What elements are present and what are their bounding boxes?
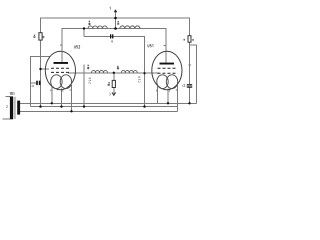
wire tube2 grid in xyxy=(145,72,160,74)
node grid2 x144 xyxy=(143,72,145,74)
capacitor C3 xyxy=(183,84,193,88)
label U52 xyxy=(74,45,80,48)
node bus2 x144 xyxy=(143,105,145,107)
arrow antenna top xyxy=(110,7,118,12)
resistor R2 xyxy=(184,36,194,43)
wire tank row xyxy=(68,72,159,74)
resistor R1 xyxy=(33,33,44,40)
grid row 1 xyxy=(51,67,69,69)
grid row 1 xyxy=(158,67,176,69)
wire R3 to arrow xyxy=(113,88,115,96)
node tank mid xyxy=(113,72,115,74)
inductor L3 xyxy=(92,70,108,72)
wire TR1 left top lead xyxy=(5,96,10,98)
pin marks tube1 xyxy=(50,44,70,91)
node rail2-C2 xyxy=(83,27,85,29)
wire bus1 xyxy=(20,102,197,104)
label U51 xyxy=(148,44,153,47)
node rail2-antenna xyxy=(114,27,117,30)
plate lead xyxy=(165,52,167,63)
wire antenna drop xyxy=(115,12,117,29)
label L2 xyxy=(117,21,119,25)
label L1 xyxy=(89,21,91,25)
envelope xyxy=(152,51,182,89)
wire R3 drop xyxy=(113,73,115,81)
tube U51 (right valve) xyxy=(148,44,182,89)
plate bar xyxy=(54,62,69,64)
node antenna-rail1 xyxy=(114,17,117,20)
wire R1 down xyxy=(40,40,42,107)
envelope xyxy=(45,51,75,89)
wire C3 down xyxy=(189,88,191,104)
capacitor C2 xyxy=(110,34,113,42)
wire left L-branch xyxy=(31,56,51,106)
node bus2 x40 xyxy=(39,105,41,107)
wire rail1 top xyxy=(41,18,190,36)
node bus1 x52 xyxy=(51,102,53,104)
pin marks tube2 xyxy=(156,89,177,92)
node bus1 x189 xyxy=(188,102,190,104)
arrow output below R3 xyxy=(109,92,115,95)
label UB2 vertical right (wire label) xyxy=(138,77,140,83)
wire tube2 lead f1 xyxy=(157,86,159,103)
tube U52 (left valve) xyxy=(45,45,80,89)
wire tube2 lead mid xyxy=(167,89,169,104)
wire R2 down to C3 xyxy=(189,42,191,84)
wire grid1 lead tube1 xyxy=(41,68,50,70)
wire bus2 xyxy=(31,106,178,108)
wire TR1 left bottom lead xyxy=(3,118,10,120)
wire C2 branch xyxy=(84,37,145,107)
wire R2 bypass right xyxy=(190,45,197,104)
filament loops xyxy=(157,75,168,89)
label U52 vertical (wire label) xyxy=(89,78,91,84)
inductor L2 xyxy=(120,26,140,29)
capacitor C1 xyxy=(32,81,41,87)
wire bus3 xyxy=(20,110,178,112)
wire tube1 lead mid xyxy=(61,89,63,107)
node bus3 x71 xyxy=(70,110,72,112)
grid row 2 xyxy=(158,72,176,74)
node grid1 xyxy=(39,68,41,70)
junction dots xyxy=(39,17,190,113)
inductor L4 xyxy=(121,70,137,72)
wire rail2 xyxy=(62,29,166,64)
wire tube1 lead f2 xyxy=(71,85,73,111)
label L4 xyxy=(117,66,119,69)
tick on C3 feed wire xyxy=(188,64,191,66)
node bus2 x61 xyxy=(60,105,62,107)
filament loops xyxy=(51,75,62,89)
label L3 xyxy=(87,65,89,70)
plate lead xyxy=(61,52,63,63)
wire tube1 lead f1 xyxy=(51,87,53,103)
grid row 2 xyxy=(51,71,69,73)
resistor R3 xyxy=(108,80,116,87)
node bus1 x168 xyxy=(167,102,169,104)
wire tube2 lead f2 xyxy=(177,85,179,111)
node bus2 x84 xyxy=(83,105,85,107)
wire C1 stub xyxy=(31,82,37,84)
wire plate tick tube2 xyxy=(164,44,166,46)
plate bar xyxy=(160,63,175,65)
wire tank left drop xyxy=(83,29,85,37)
transformer TR1 xyxy=(6,92,20,119)
inductor L1 xyxy=(88,26,107,29)
